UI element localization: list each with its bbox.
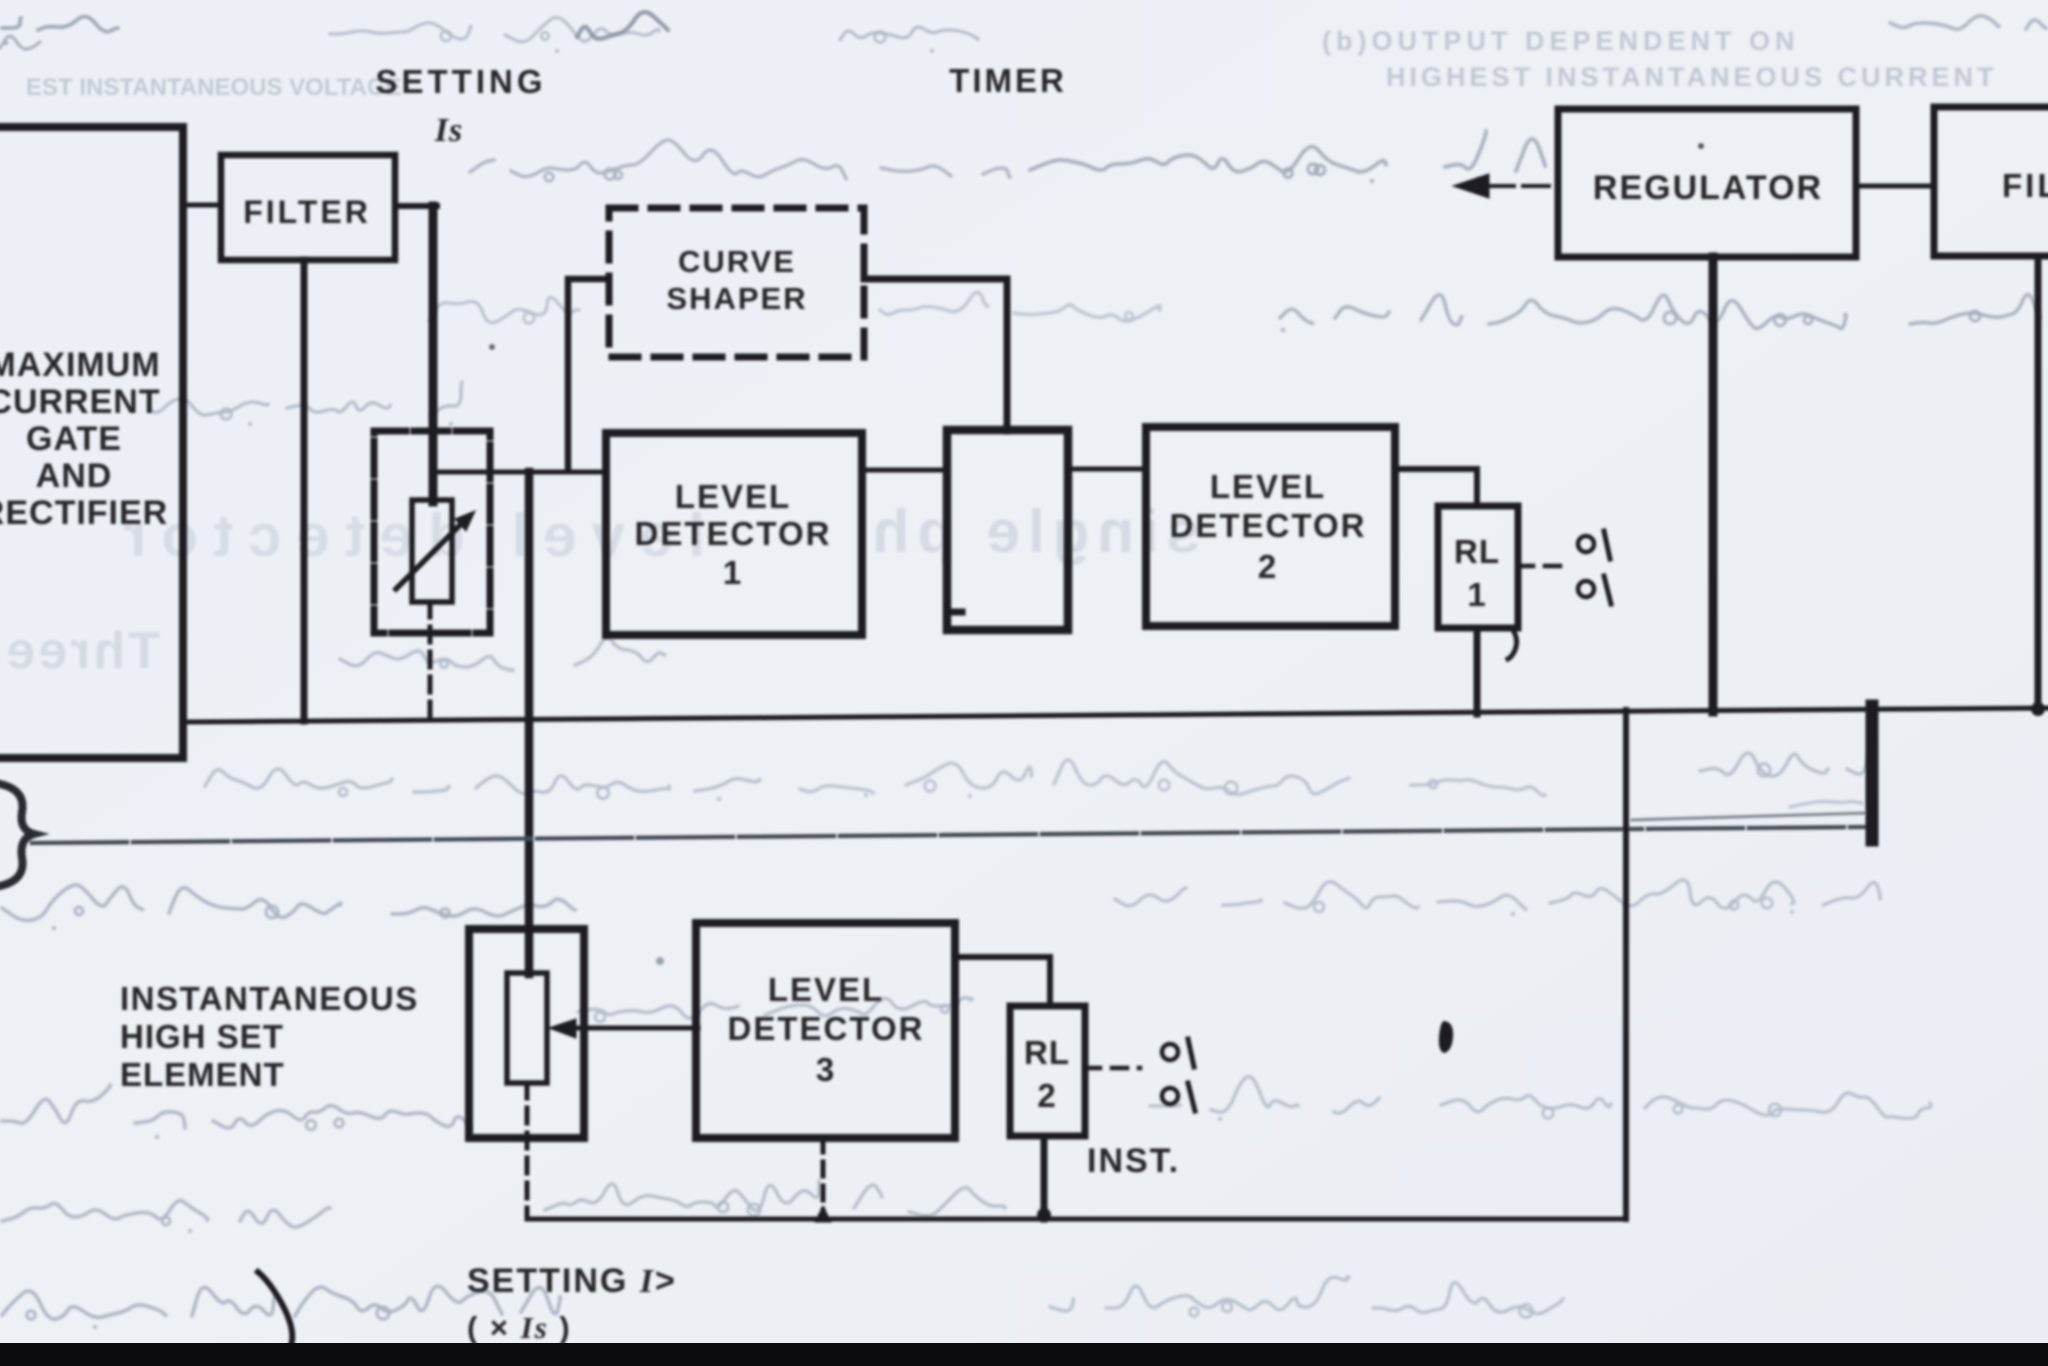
wire: level detector 1 to timer <box>862 468 947 473</box>
ghost handwriting row right, below REGULATOR <box>1280 295 2040 329</box>
wire: curve shaper left to level detector 1 input <box>568 279 609 470</box>
block: level detector 1 <box>606 433 862 635</box>
resistor element (high set) <box>507 973 547 1083</box>
svg-text:FILTER: FILTER <box>243 194 371 230</box>
svg-text:REGULATOR: REGULATOR <box>1593 169 1823 207</box>
bus termination bar <box>1866 706 1879 840</box>
svg-text:3: 3 <box>816 1051 836 1088</box>
ghost mirrored print: level detector <box>108 502 705 569</box>
relay coil RL1 <box>1438 506 1518 628</box>
wire: level detector 3 bottom, dashed <box>821 1138 826 1212</box>
svg-text:SHAPER: SHAPER <box>666 281 807 316</box>
ghost handwriting row under SETTING/TIMER <box>470 140 1010 179</box>
svg-text:level detector: level detector <box>108 502 705 569</box>
wire: resistor bottom to bus (dashed lead) <box>428 602 433 721</box>
svg-text:ELEMENT: ELEMENT <box>120 1056 285 1093</box>
wire: tap arrow from level detector 3 <box>560 1026 698 1031</box>
ghost handwriting row: left of page, under bus2 <box>2 885 575 921</box>
block: filter (auxiliary, right edge) <box>1934 107 2048 256</box>
svg-text:DETECTOR: DETECTOR <box>728 1010 925 1047</box>
wire: level detector 2 to relay RL1 <box>1395 469 1477 506</box>
svg-text:Three p: Three p <box>0 622 160 680</box>
junction at right filter/bus <box>2031 702 2045 716</box>
ghost handwriting around high-set resistor <box>578 998 972 1018</box>
svg-text:1: 1 <box>1467 576 1486 613</box>
svg-text:MAXIMUM: MAXIMUM <box>0 346 161 384</box>
svg-text:INST.: INST. <box>1087 1142 1180 1180</box>
svg-text:CURRENT: CURRENT <box>0 383 161 421</box>
stray dot in regulator <box>1698 143 1704 149</box>
svg-text:SETTING: SETTING <box>375 63 546 100</box>
ghost handwriting top row <box>330 18 659 42</box>
block: timer <box>947 430 1068 630</box>
wire: level detector 3 to relay RL2 <box>955 957 1050 1006</box>
ghost handwriting between buses <box>205 769 760 794</box>
component: setting resistor box (variable) <box>374 431 490 633</box>
svg-text:(b)OUTPUT DEPENDENT ON: (b)OUTPUT DEPENDENT ON <box>1322 26 1800 56</box>
junction RL2/setting line <box>1037 1208 1051 1222</box>
svg-text:HIGH SET: HIGH SET <box>120 1018 284 1055</box>
bus doubling segment <box>1632 813 1866 820</box>
wire: filter bottom to bus <box>301 260 308 721</box>
junction arrow on setting line <box>815 1206 831 1222</box>
wire: gate/rectifier to filter <box>183 203 221 208</box>
svg-text:SETTING I>: SETTING I> <box>467 1262 677 1300</box>
relay coil RL2 <box>1010 1006 1085 1136</box>
wire: RL1 bottom to bus <box>1474 628 1481 714</box>
artifact tick in timer box <box>950 609 962 616</box>
wire: setting drop vertical <box>429 206 438 502</box>
block: regulator <box>1558 109 1856 257</box>
ghost mirrored print: single phase <box>865 498 1200 565</box>
ghost handwriting row left <box>150 382 462 415</box>
ghost handwriting mid row <box>340 638 665 671</box>
resistor element R-setting <box>412 500 452 602</box>
ghost mirrored print: Three p <box>0 622 160 680</box>
stray gray dot left of LD3 <box>656 957 664 965</box>
wire: high-set resistor bottom, dashed to setting line <box>525 1083 530 1219</box>
component: high-set setting resistor box <box>469 929 584 1138</box>
wire: main vertical to instantaneous element <box>525 472 534 974</box>
svg-text:RL: RL <box>1024 1034 1070 1071</box>
stray dot near curve shaper <box>489 344 495 350</box>
ink blob artifact <box>1440 1022 1452 1052</box>
block: curve shaper (dashed) <box>609 208 864 357</box>
ink squiggle at RL1 corner <box>1508 630 1517 659</box>
block: maximum current gate and rectifier <box>0 127 183 758</box>
wire: regulator bottom to bus <box>1709 257 1718 712</box>
bus wire (lower, return) <box>32 827 1866 843</box>
arrow: regulator output to left <box>1488 184 1558 188</box>
contact RL1 lower <box>1578 581 1594 597</box>
svg-text:RECTIFIER: RECTIFIER <box>0 494 168 532</box>
svg-text:CURVE: CURVE <box>678 244 796 279</box>
svg-text:FILTER: FILTER <box>2002 167 2048 204</box>
block: level detector 3 <box>696 923 955 1138</box>
svg-text:RL: RL <box>1454 533 1500 570</box>
svg-text:LEVEL: LEVEL <box>675 478 791 515</box>
wire: RL2 bottom to setting line <box>1041 1136 1048 1219</box>
ink curl bottom left <box>258 1272 292 1354</box>
contact RL2 lower <box>1162 1088 1178 1104</box>
svg-text:DETECTOR: DETECTOR <box>635 515 832 552</box>
block: filter (input) <box>221 155 395 260</box>
variable-resistor arrow <box>396 517 468 589</box>
svg-text:HIGHEST INSTANTANEOUS CURRENT: HIGHEST INSTANTANEOUS CURRENT <box>1386 62 1998 92</box>
contact RL2 upper <box>1162 1044 1178 1060</box>
contact symbol of RL1 (dashed link) <box>1518 564 1560 569</box>
svg-text:( × Is ): ( × Is ) <box>467 1310 572 1345</box>
svg-text:1: 1 <box>723 554 743 591</box>
brace } at left bus end <box>0 784 34 886</box>
svg-text:INSTANTANEOUS: INSTANTANEOUS <box>120 980 419 1017</box>
wire: filter output to setting resistor, vertical drop <box>395 203 437 209</box>
ghost handwriting rows bottom <box>2 1085 470 1128</box>
bus wire (upper) <box>186 708 2048 722</box>
bottom black bar <box>0 1343 2048 1366</box>
wire: setting node to level detector 1 <box>432 470 607 475</box>
setting feedback line (bottom horizontal) <box>527 1217 1626 1222</box>
svg-text:DETECTOR: DETECTOR <box>1170 507 1367 544</box>
ghost handwriting top-left corner <box>2 17 118 32</box>
svg-text:TIMER: TIMER <box>949 62 1067 99</box>
wire: curve shaper right to timer top <box>864 279 1007 431</box>
block: level detector 2 <box>1146 427 1395 626</box>
wire: right vertical feed to instantaneous output line <box>1623 710 1629 1219</box>
wire: right filter bottom to bus <box>2035 256 2042 709</box>
svg-text:2: 2 <box>1258 548 1278 585</box>
wire: timer to level detector 2 <box>1068 467 1146 472</box>
svg-text:LEVEL: LEVEL <box>768 971 884 1008</box>
contact symbol of RL2 (dashed link) <box>1085 1066 1140 1071</box>
ghost handwriting top right corner <box>1890 16 2046 30</box>
svg-text:GATE: GATE <box>26 420 122 458</box>
contact RL1 upper <box>1578 536 1594 552</box>
svg-text:Is: Is <box>434 112 463 149</box>
svg-text:2: 2 <box>1037 1077 1056 1114</box>
svg-text:AND: AND <box>36 457 113 495</box>
svg-text:EST INSTANTANEOUS VOLTAGE: EST INSTANTANEOUS VOLTAGE <box>26 74 402 101</box>
svg-text:LEVEL: LEVEL <box>1210 468 1326 505</box>
wire: regulator to filter (right) <box>1856 184 1934 189</box>
